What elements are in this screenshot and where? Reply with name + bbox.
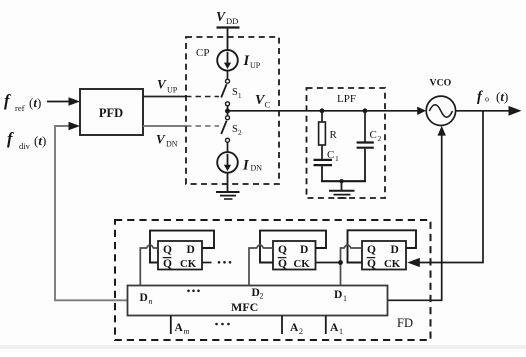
wire f_o output [455,110,509,112]
ground LPF [329,190,355,192]
svg-text:VCO: VCO [430,78,452,89]
MFC box [128,286,388,316]
wire [364,149,366,182]
svg-text:1: 1 [339,327,343,336]
PFD U1 [80,89,143,135]
svg-text:DN: DN [166,140,178,149]
svg-text:R: R [330,129,338,141]
capacitor C1 [314,159,333,161]
svg-text:CP: CP [196,47,209,59]
wire FFn Qbar to D loop [150,231,214,263]
wire V_UP [143,96,186,98]
svg-text:Q: Q [367,244,376,256]
svg-text:D: D [334,289,342,301]
node junction D1/CK2 [338,260,343,265]
svg-text:2: 2 [260,292,264,301]
svg-text:A: A [330,322,339,334]
wire [227,106,229,116]
svg-text:Q: Q [278,258,287,270]
wire FF1 Qbar to D loop [348,230,417,262]
FD dashed box [115,220,431,340]
dots MFC top [187,290,190,293]
wire MFC to VCO [388,131,442,301]
CP dashed box [186,37,279,184]
switch S2 [226,116,230,120]
wire FF2 Qbar to D loop [260,231,326,263]
svg-text:2: 2 [299,327,303,336]
node junction R branch [320,108,325,113]
wire FFn Q to Dn [140,245,158,286]
node ground tap [339,179,343,183]
wire [321,111,323,122]
svg-text:A: A [175,322,184,334]
svg-text:D: D [391,244,399,256]
wire feedback f_o to FF1 CK [420,111,484,263]
svg-text:UP: UP [250,61,261,70]
svg-text:CK: CK [294,258,311,270]
wire [364,111,366,142]
svg-text:D: D [300,244,308,256]
svg-text:CK: CK [180,258,197,270]
svg-text:(t): (t) [496,89,508,104]
svg-text:1: 1 [238,92,242,100]
wire [227,142,229,152]
LPF dashed box [307,88,386,198]
svg-text:PFD: PFD [99,106,123,120]
svg-text:DD: DD [226,16,238,26]
svg-text:C: C [265,100,271,110]
svg-text:V: V [157,77,167,92]
svg-text:Q: Q [367,258,376,270]
wire V_C to VCO [228,110,420,112]
wire tick Am [170,316,172,335]
wire tick A1 [325,316,327,335]
power rail V_DD [217,26,240,28]
svg-text:MFC: MFC [231,300,258,314]
wire [227,173,229,192]
wire [227,71,229,80]
current source I_UP [217,50,238,71]
svg-text:o: o [485,95,489,104]
capacitor C2 [357,141,374,143]
svg-text:Q: Q [163,258,172,270]
svg-text:V: V [216,9,226,24]
svg-text:2: 2 [238,129,242,137]
svg-text:FD: FD [397,316,413,330]
svg-text:m: m [184,327,190,336]
svg-text:2: 2 [378,134,382,143]
wire FF2 Q to D2 [249,245,273,286]
svg-text:(t): (t) [29,95,41,110]
wire LPF bottom [321,180,366,182]
wire V_DN [143,125,186,127]
resistor R [319,122,326,145]
svg-text:(t): (t) [34,133,46,148]
switch S1 [226,79,230,83]
wire tick A2 [281,316,283,335]
ground CP [216,191,240,193]
wire feedback f_div [55,126,128,300]
svg-text:D: D [187,244,195,256]
svg-text:CK: CK [384,258,401,270]
dots after FFn CK [218,261,221,264]
wire [321,145,323,159]
wire [227,29,229,51]
svg-text:DN: DN [251,164,263,173]
wire FFn CK out [202,262,212,264]
wire [321,166,323,182]
svg-text:UP: UP [167,86,178,95]
current source I_DN [217,152,238,173]
svg-text:1: 1 [343,294,347,303]
svg-text:n: n [149,297,153,306]
svg-text:C: C [327,149,334,161]
svg-text:LPF: LPF [337,93,356,105]
flip-flop FF1 [362,241,406,270]
svg-text:Q: Q [278,244,287,256]
wire FF2 CK to node [316,262,341,264]
svg-text:V: V [156,132,166,147]
svg-text:ref: ref [15,103,25,113]
dots MFC bottom [215,323,218,326]
svg-text:C: C [370,129,377,141]
flip-flop FFn [158,241,202,270]
wire FF1 Q to D1 [341,245,363,286]
flip-flop FF2 [273,241,316,270]
svg-text:A: A [290,322,299,334]
svg-text:D: D [140,292,148,304]
svg-text:div: div [19,141,31,151]
wire f_ref arrow [47,101,70,103]
node junction C2 branch [363,108,368,113]
node V_C junction [225,109,230,114]
svg-text:1: 1 [335,154,339,163]
svg-text:Q: Q [163,244,172,256]
